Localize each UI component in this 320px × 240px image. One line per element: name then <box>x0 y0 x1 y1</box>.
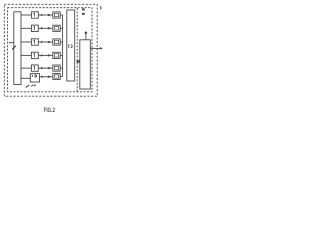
row 1 wire from block 1a <box>21 14 31 16</box>
block 10 label <box>69 44 72 48</box>
label 2c mark <box>77 60 80 62</box>
row 4 sensor box <box>31 52 38 58</box>
row 6 junction dot <box>48 76 50 78</box>
row 1 arrowhead <box>41 14 43 17</box>
row 4 wire from block 1a <box>21 54 31 56</box>
row 2 interface box <box>53 25 60 31</box>
label 3a leader <box>26 85 29 88</box>
block 30 box <box>30 74 39 82</box>
label 1b <box>12 46 16 50</box>
row 1 sensor symbol <box>34 13 35 17</box>
label 3a mark <box>31 85 36 87</box>
row 3 interface box <box>53 39 60 45</box>
bus line <box>62 15 64 77</box>
row 4 interface inner square <box>54 54 58 57</box>
row 5 wire to interface <box>38 67 53 69</box>
row 5 sensor symbol <box>34 66 35 70</box>
inner dashed enclosure <box>8 8 92 92</box>
row 1 stub to bus <box>60 14 62 16</box>
row 4 stub to bus <box>60 54 62 56</box>
row 2 interface inner square <box>54 27 58 30</box>
antenna feed dash upper <box>82 8 85 10</box>
dashed divider line <box>76 8 78 92</box>
row 2 wire from block 1a <box>21 27 31 29</box>
antenna junction dot <box>85 32 88 35</box>
row 5 interface inner square <box>54 66 58 69</box>
row 2 sensor symbol <box>34 26 35 30</box>
reference numeral 1 <box>99 7 102 10</box>
row 6 wire to interface <box>40 76 53 78</box>
row 1 interface inner square <box>54 13 58 16</box>
output wire <box>90 47 100 49</box>
row 5 arrowhead <box>41 67 43 70</box>
row 5 interface box <box>53 65 60 71</box>
row 5 wire from block 1a <box>21 67 31 69</box>
label 1b leader line <box>9 42 14 44</box>
row 4 sensor symbol <box>34 53 35 57</box>
row 3 stub to bus <box>60 41 62 43</box>
block 1a left tall rectangle <box>14 12 21 85</box>
row 6 arrowhead <box>41 76 43 79</box>
row 5 sensor box <box>31 65 38 71</box>
row 3 sensor symbol <box>34 40 35 44</box>
row 1 junction dot <box>48 14 50 16</box>
row 3 interface inner square <box>54 40 58 43</box>
row 3 junction dot <box>48 41 50 43</box>
row 2 junction dot <box>48 27 50 29</box>
svg-text:FIG.2: FIG.2 <box>44 107 56 114</box>
row 6 stub to bus <box>60 76 62 78</box>
row 1 wire to interface <box>38 14 53 16</box>
row 2 wire to interface <box>38 27 53 29</box>
block 30 label <box>32 75 36 77</box>
row 4 arrowhead <box>41 54 43 57</box>
row 6 wire from block 1a <box>21 77 30 79</box>
row 5 stub to bus <box>60 67 62 69</box>
output arrowhead <box>100 47 103 50</box>
block 10 tall rectangle <box>67 10 75 81</box>
row 4 junction dot <box>48 54 50 56</box>
antenna wire into block 20 <box>85 34 87 40</box>
outer dashed enclosure <box>4 4 97 96</box>
row 4 interface box <box>53 52 60 58</box>
row 6 interface box <box>53 73 60 79</box>
row 1 interface box <box>53 12 60 18</box>
row 2 sensor box <box>31 25 38 31</box>
row 2 arrowhead <box>41 27 43 30</box>
row 2 stub to bus <box>60 27 62 29</box>
row 3 sensor box <box>31 39 38 45</box>
antenna feed dash lower <box>82 13 85 15</box>
row 3 wire to interface <box>38 41 53 43</box>
row 3 arrowhead <box>41 41 43 44</box>
row 5 junction dot <box>48 67 50 69</box>
row 3 wire from block 1a <box>21 41 31 43</box>
row 6 interface inner square <box>54 75 58 78</box>
row 1 sensor box <box>31 12 38 18</box>
block 20 rectangle <box>80 40 91 89</box>
row 4 wire to interface <box>38 54 53 56</box>
